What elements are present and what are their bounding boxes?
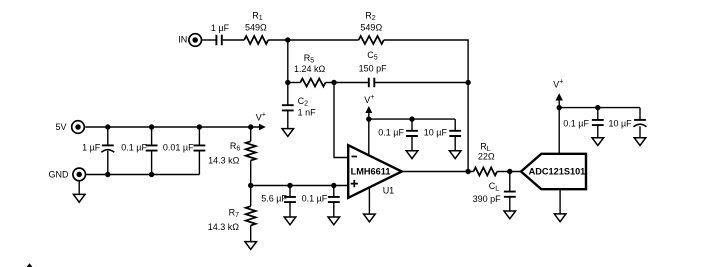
svg-text:549Ω: 549Ω: [360, 22, 382, 32]
svg-text:0.1 µF: 0.1 µF: [121, 142, 147, 152]
svg-text:LMH6611: LMH6611: [351, 167, 391, 177]
svg-text:22Ω: 22Ω: [478, 152, 495, 162]
svg-text:5.6 µF: 5.6 µF: [261, 193, 287, 203]
svg-text:549Ω: 549Ω: [245, 22, 267, 32]
svg-text:U1: U1: [383, 186, 395, 196]
svg-text:0.1 µF: 0.1 µF: [302, 193, 328, 203]
svg-text:1 µF: 1 µF: [82, 142, 101, 152]
svg-text:14.3 kΩ: 14.3 kΩ: [208, 155, 240, 165]
svg-text:10 µF: 10 µF: [424, 128, 448, 138]
svg-text:IN: IN: [178, 35, 187, 45]
svg-text:0.1 µF: 0.1 µF: [563, 118, 589, 128]
svg-text:10 µF: 10 µF: [608, 118, 632, 128]
svg-text:1 µF: 1 µF: [211, 23, 230, 33]
svg-text:1.24 kΩ: 1.24 kΩ: [294, 64, 326, 74]
svg-text:390 pF: 390 pF: [473, 194, 502, 204]
svg-text:0.1 µF: 0.1 µF: [378, 128, 404, 138]
svg-text:0.01 µF: 0.01 µF: [163, 142, 194, 152]
svg-text:ADC121S101: ADC121S101: [529, 167, 586, 177]
svg-text:5V: 5V: [55, 122, 66, 132]
svg-text:150 pF: 150 pF: [359, 64, 388, 74]
svg-text:1 nF: 1 nF: [298, 108, 317, 118]
svg-text:14.3 kΩ: 14.3 kΩ: [208, 222, 240, 232]
svg-text:GND: GND: [49, 169, 70, 179]
